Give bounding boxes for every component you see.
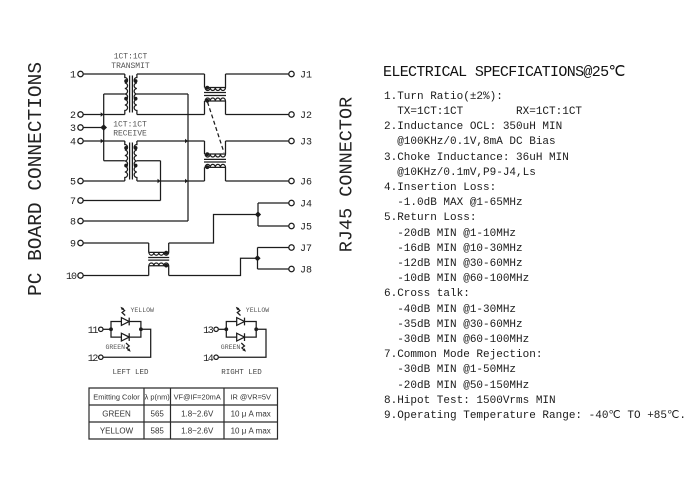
svg-text:1CT:1CT: 1CT:1CT [114, 53, 148, 62]
arrow yellow left [121, 307, 126, 316]
wire pin8 row [83, 220, 188, 222]
LED green left [121, 333, 129, 341]
label yellow left [131, 307, 155, 314]
pin 10 [66, 272, 83, 283]
wire L2 to J6 [226, 180, 289, 182]
svg-text:J1: J1 [300, 71, 312, 82]
wire pin4 to T2 primary top [83, 140, 125, 142]
wire to J8 [258, 268, 289, 270]
arrow yellow right [236, 307, 241, 316]
pin 11 [88, 326, 103, 337]
svg-text:13: 13 [203, 326, 214, 337]
wire right LED branch frame [219, 322, 266, 358]
pin J1 [289, 71, 312, 82]
transformer T1 transmit primary winding [125, 74, 128, 115]
wire T2 secondary bottom to L2 [137, 180, 205, 182]
wire L2 to J3 [226, 140, 289, 142]
svg-text:J4: J4 [300, 200, 312, 211]
label green left [106, 344, 126, 351]
hop T2 secondary bottom over pin7 riser [158, 179, 161, 184]
svg-text:GREEN: GREEN [221, 344, 241, 351]
svg-text:RIGHT LED: RIGHT LED [221, 369, 262, 377]
svg-text:11: 11 [88, 326, 99, 337]
transformer T2 phase dots [124, 146, 137, 167]
vertical label: RJ45 CONNECTOR [336, 94, 357, 254]
wire L1 to J1 [226, 73, 289, 75]
electrical specifications text block [383, 62, 686, 424]
wire pin13 to right LED pair [219, 328, 227, 330]
svg-text:1.8~2.6V: 1.8~2.6V [181, 427, 214, 436]
choke L1 bottom winding [205, 98, 226, 115]
svg-text:Emitting Color: Emitting Color [93, 393, 140, 402]
svg-text:GREEN: GREEN [102, 410, 131, 419]
wire pin3 to bus [83, 127, 103, 129]
label green right [221, 344, 241, 351]
wire to J5 [258, 225, 289, 227]
svg-text:RECEIVE: RECEIVE [113, 130, 147, 139]
svg-text:J3: J3 [300, 138, 312, 149]
wire T1 secondary top to L1 [137, 73, 205, 75]
pin J4 [289, 200, 312, 211]
label LEFT LED [112, 369, 149, 377]
wire J4/J5 vertical [257, 203, 259, 226]
LED table grid [89, 388, 278, 439]
choke L2 top winding [205, 141, 226, 157]
transformer T1 core [130, 76, 133, 113]
wire to J4 [258, 202, 289, 204]
wire T2 secondary top to L2 [137, 140, 205, 142]
svg-text:1: 1 [70, 71, 76, 82]
wire pin9 to L3 [83, 242, 148, 244]
svg-text:LEFT LED: LEFT LED [112, 369, 149, 377]
transformer T2 core [130, 143, 133, 180]
wire T1 primary center tap [104, 93, 125, 95]
wire T2 secondary center tap [137, 160, 161, 162]
wire pin5 to T2 primary bottom [83, 180, 125, 182]
pin 13 [203, 326, 218, 337]
node J4/J5 junction [255, 211, 261, 217]
svg-text:4: 4 [70, 138, 76, 149]
pin 9 [70, 240, 83, 251]
pin 1 [70, 71, 83, 82]
svg-text:10: 10 [66, 272, 77, 283]
transformer T1 phase dots [124, 79, 137, 100]
pin J7 [289, 244, 312, 255]
wire pin7 riser [160, 161, 162, 201]
wire to J7 [258, 247, 289, 249]
choke L1 phase dots [205, 86, 209, 103]
svg-text:IR @VR=5V: IR @VR=5V [230, 393, 271, 402]
node J7/J8 junction [254, 255, 260, 261]
pin J5 [289, 223, 312, 234]
wire T1 secondary bottom to L1 [137, 114, 205, 116]
svg-text:YELLOW: YELLOW [246, 307, 270, 314]
LED table row green [102, 410, 271, 419]
choke L2 bottom winding [205, 164, 226, 181]
svg-text:585: 585 [151, 427, 165, 436]
wire L1 to J2 [226, 114, 289, 116]
transformer T2 secondary winding [134, 141, 137, 181]
svg-text:J7: J7 [300, 244, 312, 255]
wire center-tap bus [103, 94, 105, 161]
pin 8 [70, 218, 83, 229]
svg-text:λ p(nm): λ p(nm) [145, 393, 170, 402]
svg-text:GREEN: GREEN [106, 344, 126, 351]
wire left LED branch frame [103, 322, 150, 358]
hop pin2 row over bus [101, 112, 104, 117]
choke L3 core [148, 258, 169, 261]
svg-text:10 μ A max: 10 μ A max [231, 410, 271, 419]
hop T2 secondary top over pin8 riser [185, 139, 188, 144]
svg-text:3: 3 [70, 124, 76, 135]
svg-text:1.8~2.6V: 1.8~2.6V [181, 410, 214, 419]
wire pin11 to left LED pair [103, 328, 111, 330]
hop pin4 row over bus [101, 139, 104, 144]
node pin3 junction diamond [100, 124, 107, 131]
LED table header row [93, 393, 271, 402]
choke L3 phase dots [164, 251, 168, 268]
node right LED junctions [224, 327, 258, 331]
wire T1 secondary center tap [137, 93, 188, 95]
wire pin8 riser [187, 94, 189, 221]
svg-text:TRANSMIT: TRANSMIT [111, 62, 150, 71]
pin 3 [70, 124, 83, 135]
pin J3 [289, 138, 312, 149]
pin 12 [88, 354, 103, 365]
choke L1 core [204, 93, 226, 96]
LED yellow right [237, 318, 245, 326]
dashed crossover line [208, 102, 225, 153]
wire T2 primary center tap [104, 160, 125, 162]
wire L3 top-right to J4/J5 node [169, 215, 258, 244]
arrow green left [126, 343, 131, 352]
transformer T1 secondary winding [134, 74, 137, 115]
label RIGHT LED [221, 369, 262, 377]
wire L3 bottom-right to J7/J8 node [169, 258, 258, 275]
svg-text:10 μ A max: 10 μ A max [231, 427, 271, 436]
label T1 ratio [111, 53, 150, 72]
svg-text:565: 565 [151, 410, 165, 419]
choke L3 bottom winding [149, 263, 169, 276]
pin 2 [70, 111, 83, 122]
svg-text:YELLOW: YELLOW [131, 307, 155, 314]
label yellow right [246, 307, 270, 314]
LED yellow left [121, 318, 129, 326]
pin J2 [289, 111, 312, 122]
pin J6 [289, 178, 312, 189]
wire pin7 row [83, 200, 160, 202]
svg-text:8: 8 [70, 218, 76, 229]
choke L2 phase dots [205, 152, 209, 169]
choke L1 top winding [205, 74, 226, 91]
svg-text:12: 12 [88, 354, 99, 365]
vertical label: PC BOARD CONNECTIONS [25, 66, 47, 296]
pin 7 [70, 197, 83, 208]
wire pin10 to L3 [83, 275, 148, 277]
choke L3 top winding [149, 243, 169, 255]
pin 14 [203, 354, 218, 365]
svg-text:2: 2 [70, 111, 76, 122]
svg-text:14: 14 [203, 354, 214, 365]
svg-text:5: 5 [70, 178, 76, 189]
choke L2 core [204, 159, 226, 162]
wire J7/J8 vertical [257, 248, 259, 270]
arrow green right [241, 343, 246, 352]
pin 5 [70, 178, 83, 189]
pin J8 [289, 266, 312, 277]
svg-text:VF@IF=20mA: VF@IF=20mA [174, 393, 221, 402]
label T2 ratio [113, 121, 147, 139]
hop T2 secondary bottom over pin8 riser [185, 179, 188, 184]
svg-text:J8: J8 [300, 266, 312, 277]
svg-text:1CT:1CT: 1CT:1CT [113, 121, 147, 130]
svg-text:J6: J6 [300, 178, 312, 189]
wire pin2 to T1 primary bottom [83, 114, 125, 116]
node left LED junctions [109, 327, 143, 331]
pin 4 [70, 138, 83, 149]
svg-text:YELLOW: YELLOW [100, 427, 134, 436]
svg-text:J5: J5 [300, 223, 312, 234]
LED table row yellow [100, 427, 271, 436]
LED green right [237, 333, 245, 341]
wire pin1 to T1 primary top [83, 73, 125, 75]
svg-text:J2: J2 [300, 111, 312, 122]
svg-text:9: 9 [70, 240, 76, 251]
svg-text:7: 7 [70, 197, 76, 208]
transformer T2 receive primary winding [125, 141, 128, 181]
